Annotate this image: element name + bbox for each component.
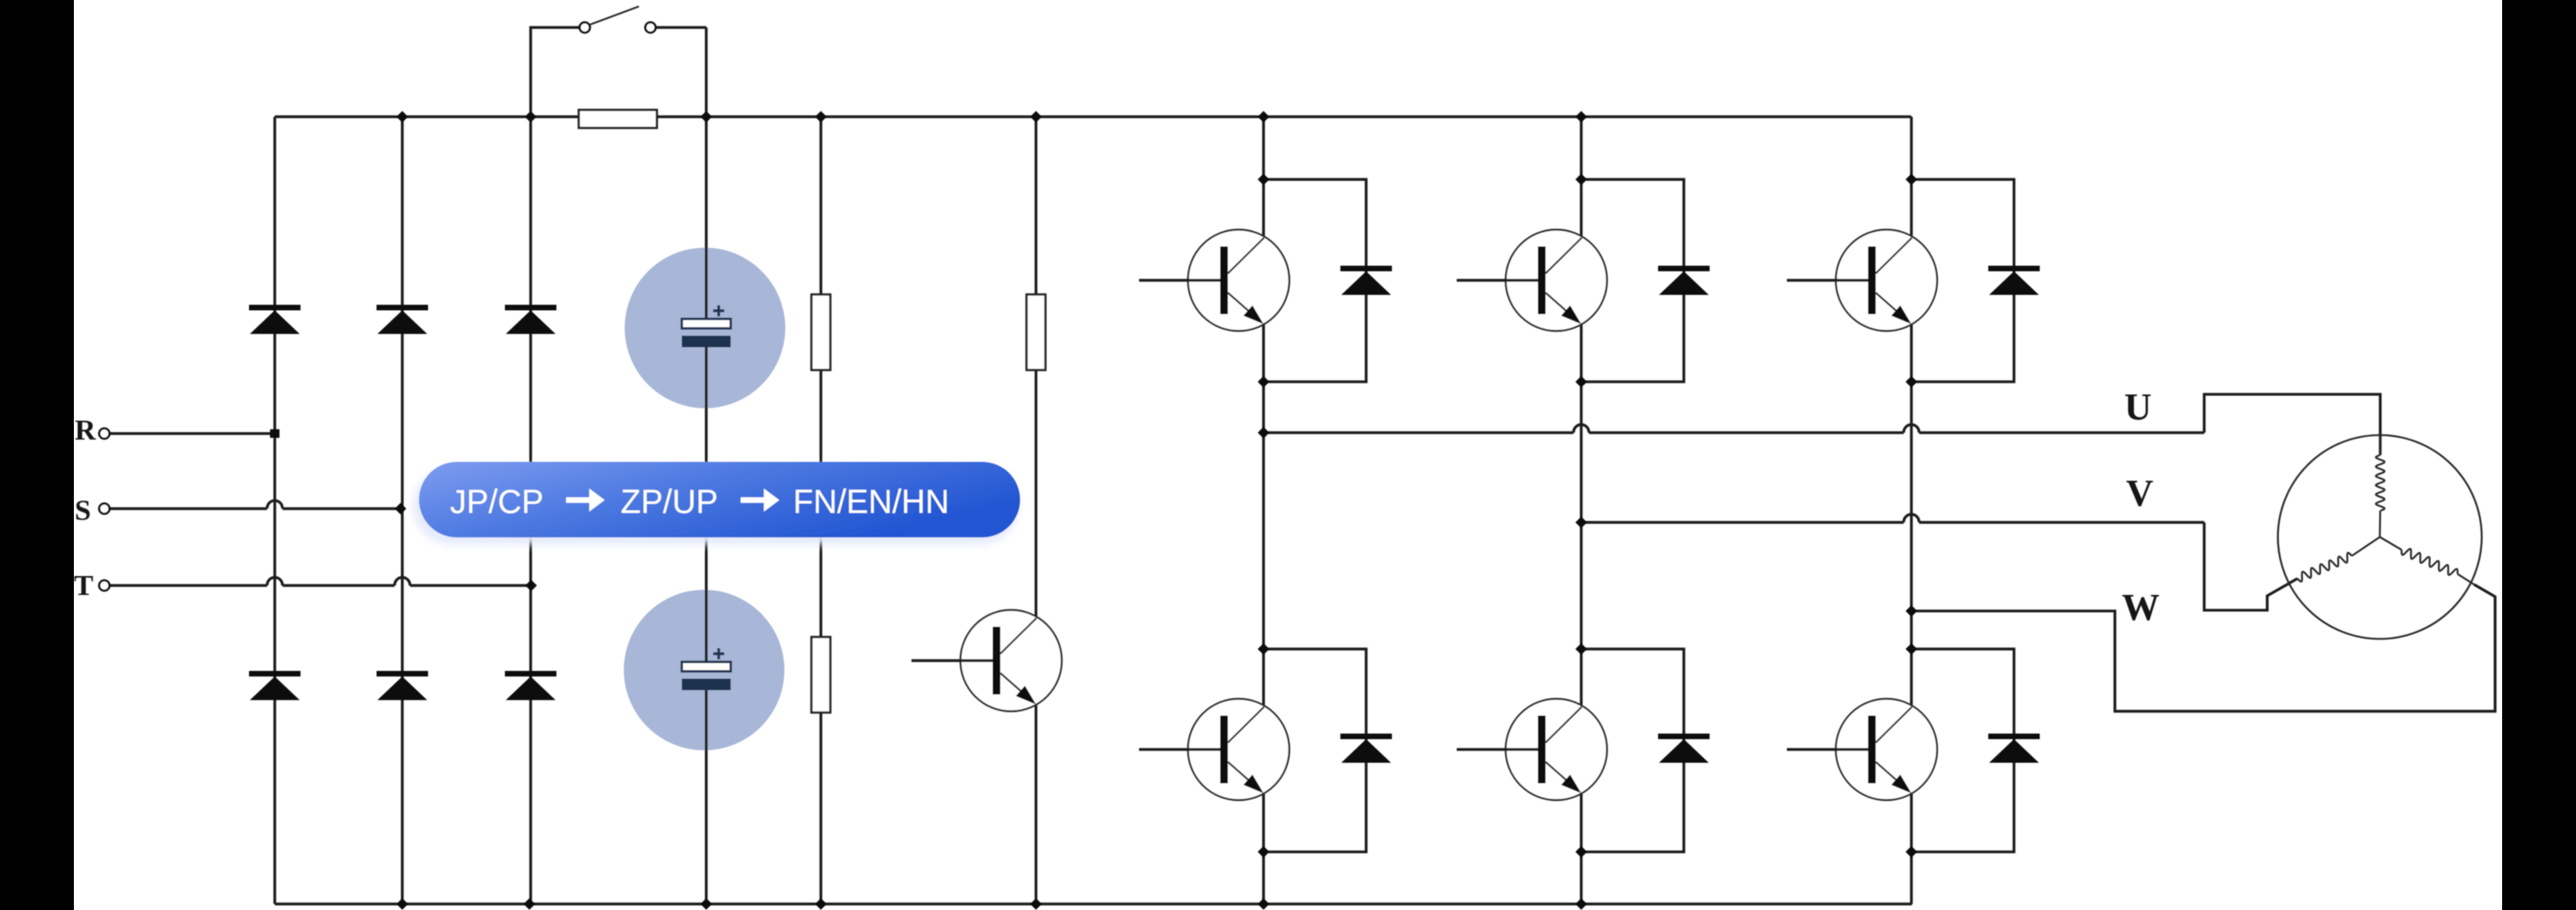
svg-text:V: V: [2126, 472, 2154, 514]
svg-text:FN/EN/HN: FN/EN/HN: [793, 484, 950, 521]
svg-text:W: W: [2122, 586, 2160, 628]
svg-text:ZP/UP: ZP/UP: [621, 484, 718, 521]
svg-text:S: S: [75, 495, 91, 527]
svg-text:U: U: [2124, 386, 2152, 428]
svg-text:JP/CP: JP/CP: [450, 484, 544, 521]
svg-text:R: R: [75, 415, 96, 446]
svg-text:T: T: [74, 570, 94, 602]
